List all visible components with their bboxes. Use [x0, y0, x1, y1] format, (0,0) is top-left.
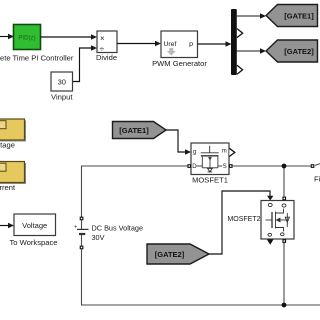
svg-text:g: g [193, 149, 196, 155]
svg-text:Fi: Fi [314, 174, 320, 183]
svg-text:30: 30 [58, 78, 66, 87]
svg-text:DC Bus Voltage: DC Bus Voltage [92, 224, 144, 233]
svg-text:[GATE1]: [GATE1] [284, 12, 314, 21]
svg-text:ete Time PI Controller: ete Time PI Controller [0, 54, 74, 63]
svg-text:PWM Generator: PWM Generator [152, 59, 207, 68]
svg-text:P: P [189, 42, 194, 49]
svg-text:rrent: rrent [0, 183, 16, 192]
svg-text:+: + [74, 225, 77, 231]
svg-text:Divide: Divide [96, 53, 117, 62]
svg-text:MOSFET2: MOSFET2 [227, 216, 260, 223]
svg-text:[GATE2]: [GATE2] [155, 250, 185, 259]
svg-text:ltage: ltage [0, 141, 15, 150]
svg-text:[GATE1]: [GATE1] [119, 126, 149, 135]
svg-text:[GATE2]: [GATE2] [284, 47, 314, 56]
svg-text:÷: ÷ [100, 44, 105, 53]
svg-text:MOSFET1: MOSFET1 [192, 176, 228, 185]
svg-text:D: D [192, 164, 197, 170]
svg-text:×: × [100, 34, 105, 43]
svg-text:m: m [222, 149, 227, 155]
svg-text:To Workspace: To Workspace [10, 238, 58, 247]
svg-text:S: S [223, 164, 227, 170]
svg-text:Voltage: Voltage [22, 221, 47, 230]
svg-text:Uref: Uref [164, 41, 177, 48]
svg-text:Vinput: Vinput [51, 93, 73, 102]
svg-text:PID(z): PID(z) [18, 34, 35, 41]
svg-text:30V: 30V [92, 233, 105, 242]
